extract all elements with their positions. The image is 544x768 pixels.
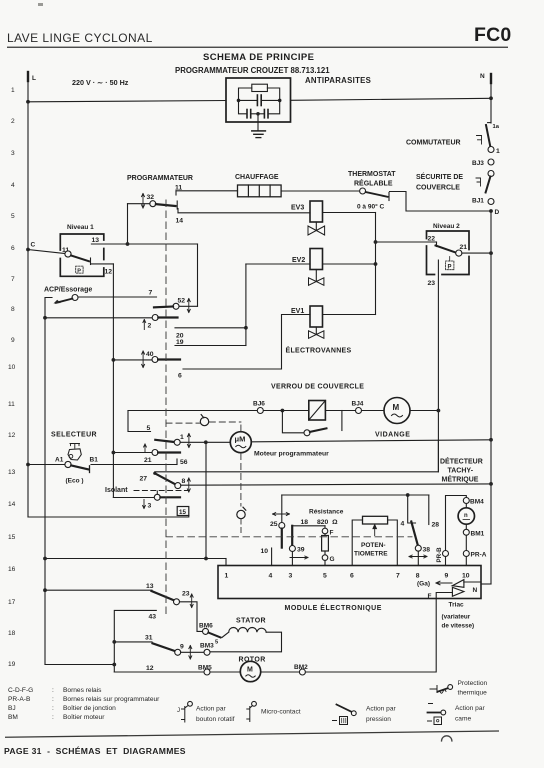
- svg-text:3: 3: [148, 503, 152, 510]
- ACP switch circle: [72, 295, 78, 301]
- wire 21 to N: [462, 252, 491, 254]
- wire 7: [78, 296, 157, 298]
- svg-text:19: 19: [8, 661, 16, 668]
- microcontact cam circle 2: [237, 510, 245, 518]
- svg-text:9: 9: [180, 644, 184, 651]
- pM drop vertical: [205, 442, 207, 558]
- svg-text:SÉCURITE DE: SÉCURITE DE: [416, 172, 463, 181]
- wire uM to N: [251, 440, 491, 442]
- svg-text:12: 12: [105, 269, 113, 276]
- connector BJ3: [488, 159, 494, 165]
- wire antiparasites to N rail: [291, 98, 492, 100]
- punch hole mark: [442, 736, 452, 741]
- heater resistor chauffage: [238, 185, 282, 197]
- contact 21 circle: [152, 450, 158, 456]
- cam arrow 39: [290, 556, 308, 559]
- cam arrow 8: [187, 478, 190, 492]
- node 4/28 wire: [406, 493, 410, 497]
- wire B1 to 56: [91, 464, 177, 466]
- wire 11: [175, 191, 177, 195]
- contact 3 wire: [113, 497, 154, 499]
- node rail motor: [112, 663, 116, 667]
- svg-text:15: 15: [8, 534, 16, 541]
- potentiometer left leg: [352, 520, 362, 566]
- svg-text:B1: B1: [90, 457, 99, 464]
- wire 8 to N: [181, 484, 491, 485]
- EV2 valve symbol: [315, 270, 317, 282]
- wire 12 motor: [114, 671, 204, 673]
- svg-text:52: 52: [178, 298, 186, 305]
- wire EV2 right: [323, 263, 376, 265]
- wire 13 motor row: [45, 589, 152, 591]
- wire 22: [376, 241, 437, 243]
- svg-text:1: 1: [11, 87, 15, 94]
- small scanner tick top left: [38, 3, 43, 6]
- svg-text::: :: [52, 705, 54, 712]
- resistor 820 F circle: [324, 526, 326, 528]
- verrou microswitch blade: [310, 428, 327, 432]
- svg-text:13: 13: [92, 237, 100, 244]
- node rail/wire13b: [43, 588, 47, 592]
- wire 18: [292, 525, 325, 527]
- svg-text:STATOR: STATOR: [236, 618, 266, 625]
- verrou relay coil: [309, 401, 326, 421]
- contact 25 circle: [279, 523, 285, 529]
- svg-text:1: 1: [180, 434, 184, 441]
- contact 38 blade: [411, 522, 418, 546]
- wire 1 to uM: [180, 441, 230, 443]
- BM4 circle: [463, 498, 469, 504]
- svg-text:23: 23: [182, 591, 190, 598]
- switch 1a blade: [488, 122, 491, 124]
- node EV bus EV2: [374, 262, 378, 266]
- wire 14: [177, 209, 179, 213]
- pin4 stub: [271, 548, 273, 566]
- node 31 junction: [112, 640, 116, 644]
- pin9 stub: [445, 557, 447, 566]
- svg-text:pression: pression: [366, 716, 391, 723]
- wire 13: [91, 243, 197, 245]
- cam arrow 32: [142, 194, 145, 209]
- svg-text:28: 28: [432, 522, 440, 529]
- svg-text:6: 6: [350, 573, 354, 580]
- svg-text:7: 7: [149, 290, 153, 297]
- svg-text:G: G: [330, 556, 335, 563]
- wire BJ4 to motor: [362, 410, 385, 412]
- svg-text:D: D: [495, 209, 500, 216]
- svg-text:43: 43: [149, 614, 157, 621]
- svg-text:27: 27: [140, 476, 148, 483]
- svg-text:11: 11: [8, 401, 15, 408]
- svg-text:M: M: [247, 667, 253, 674]
- svg-text:L: L: [32, 75, 36, 82]
- svg-text:PROGRAMMATEUR: PROGRAMMATEUR: [127, 175, 193, 182]
- svg-text:13: 13: [8, 469, 16, 476]
- triac to F: [436, 593, 452, 599]
- contact 21 wire: [113, 452, 152, 454]
- ground: [257, 114, 259, 131]
- dashed link module: [240, 425, 242, 431]
- contact 27 pivot: [153, 472, 156, 475]
- svg-text:F: F: [428, 593, 432, 600]
- svg-text:A1: A1: [55, 457, 64, 464]
- svg-text:MODULE ÉLECTRONIQUE: MODULE ÉLECTRONIQUE: [285, 603, 382, 612]
- couvercle switch symbol F: [476, 178, 481, 186]
- BM6 tap blade: [208, 633, 220, 638]
- contact circle 1: [488, 147, 494, 153]
- svg-text:1: 1: [225, 573, 229, 580]
- L rail: [27, 72, 29, 517]
- wire 19: [175, 345, 246, 347]
- svg-text:BM5: BM5: [198, 665, 212, 672]
- svg-text:came: came: [455, 716, 471, 723]
- verrou microswitch circle: [304, 430, 310, 436]
- svg-text:BM: BM: [8, 714, 18, 721]
- svg-text:J: J: [177, 708, 180, 714]
- svg-text:0 à 90° C: 0 à 90° C: [357, 203, 384, 211]
- N rail middle segment: [490, 211, 492, 584]
- svg-text:PR-A-B: PR-A-B: [8, 696, 31, 703]
- svg-text:Boîtier de jonction: Boîtier de jonction: [63, 705, 116, 712]
- svg-text:10: 10: [462, 573, 470, 580]
- svg-text:4: 4: [269, 573, 273, 580]
- wire EV1 right: [323, 314, 376, 316]
- svg-text:3: 3: [11, 150, 15, 157]
- stator winding: [222, 628, 266, 638]
- EV2 riser: [245, 264, 247, 346]
- node pM-drop/pin1wire: [204, 557, 208, 561]
- contact 39 blade: [291, 526, 293, 546]
- node C: [26, 248, 30, 252]
- wire coil to BJ4: [325, 410, 355, 412]
- svg-text:TACHY-: TACHY-: [448, 468, 474, 475]
- svg-text:BJ3: BJ3: [472, 160, 484, 167]
- pin8 stub: [417, 551, 419, 565]
- pin1 stub: [225, 559, 227, 566]
- resistor antiparasites top: [239, 88, 252, 100]
- selecteur blade: [71, 465, 88, 469]
- wire main phase to antiparasites: [28, 101, 226, 102]
- svg-text:1a: 1a: [493, 124, 500, 130]
- svg-text:2: 2: [11, 118, 15, 125]
- svg-text:21: 21: [144, 457, 152, 464]
- svg-text:Boîtier moteur: Boîtier moteur: [63, 714, 105, 721]
- svg-text:VIDANGE: VIDANGE: [375, 432, 410, 439]
- contact 32: [150, 201, 156, 207]
- node filter left: [237, 99, 241, 103]
- contact 52: [173, 303, 179, 309]
- svg-text:Triac: Triac: [449, 602, 465, 609]
- capacitor C1 series: [239, 99, 257, 101]
- niveau1 blade: [71, 256, 89, 262]
- programme motor uM: [230, 432, 251, 453]
- cam arrow 9: [189, 646, 192, 660]
- svg-text:ROTOR: ROTOR: [239, 657, 266, 664]
- node rail/pin1wire: [43, 557, 47, 561]
- niveau2 contact circle 21: [456, 250, 462, 256]
- wire rotor to BM2: [261, 671, 300, 673]
- svg-text:C: C: [31, 242, 36, 249]
- cam arrow 1: [187, 434, 190, 448]
- wire 5 stub: [128, 411, 151, 432]
- triac to N edge: [464, 581, 481, 583]
- contact 1 blade: [155, 440, 174, 442]
- connector BJ4: [356, 408, 362, 414]
- svg-text:Isolant: Isolant: [105, 487, 128, 494]
- svg-text:PR-B: PR-B: [436, 547, 443, 563]
- contact 40: [152, 357, 158, 363]
- svg-text:SCHEMA DE PRINCIPE: SCHEMA DE PRINCIPE: [203, 52, 314, 63]
- dashed cam line 1: [165, 200, 167, 617]
- svg-text:Niveau 2: Niveau 2: [433, 223, 460, 230]
- module electronique box: [218, 566, 481, 599]
- svg-text:BJ: BJ: [8, 705, 16, 712]
- node pM branch: [204, 440, 208, 444]
- wire to pin1: [45, 558, 226, 560]
- node D: [489, 209, 493, 213]
- svg-text:Moteur programmateur: Moteur programmateur: [254, 451, 329, 458]
- svg-text:BM2: BM2: [294, 664, 308, 671]
- thermostat blade: [366, 192, 388, 197]
- svg-text:8: 8: [11, 306, 15, 313]
- svg-text:μM: μM: [235, 435, 246, 444]
- svg-text::: :: [52, 687, 54, 694]
- capacitor C2 bottom left: [239, 100, 247, 113]
- node N junction: [489, 96, 493, 100]
- node 13/32: [126, 242, 130, 246]
- svg-text:FC0: FC0: [474, 24, 511, 46]
- svg-text:19: 19: [176, 339, 184, 346]
- PR-B circle: [443, 551, 449, 557]
- pin5 stub: [324, 560, 326, 565]
- node filter right: [278, 99, 282, 103]
- wire 23 drop: [437, 260, 439, 472]
- svg-text:8: 8: [182, 478, 186, 485]
- contact 31/9 blade: [153, 643, 175, 651]
- antiparasites filter box: [226, 78, 291, 122]
- svg-text:SELECTEUR: SELECTEUR: [51, 432, 97, 439]
- svg-text:de vitesse): de vitesse): [442, 623, 475, 630]
- microcontact cam circle 1: [200, 417, 208, 425]
- svg-text:Niveau 1: Niveau 1: [67, 224, 94, 231]
- footer rule: [5, 730, 499, 738]
- N rail: [490, 74, 492, 123]
- svg-text:BM1: BM1: [471, 531, 485, 538]
- svg-text:BJ6: BJ6: [253, 401, 265, 408]
- PR-A circle: [465, 535, 467, 550]
- svg-text:VERROU DE COUVERCLE: VERROU DE COUVERCLE: [271, 384, 364, 391]
- svg-text:(Ga): (Ga): [417, 581, 430, 588]
- header rule: [7, 47, 508, 48]
- niveau1 12 terminal: [92, 263, 114, 265]
- legend text: [8, 687, 160, 721]
- legend icon came: [429, 703, 433, 705]
- module pin numbers: [225, 573, 470, 580]
- svg-text:Bornes relais: Bornes relais: [63, 687, 102, 694]
- contact 3 circle: [154, 494, 160, 500]
- isolant dashes: [134, 490, 188, 492]
- wire rail to motor block: [45, 664, 114, 666]
- cam arrow 38: [409, 555, 427, 558]
- wire 27 to N branch: [155, 471, 439, 473]
- wire 52 to 13drop: [179, 305, 197, 307]
- cam arrow 21: [144, 444, 147, 453]
- contact 21 blade: [158, 451, 180, 453]
- svg-text:M: M: [393, 403, 400, 412]
- svg-text:25: 25: [270, 521, 278, 528]
- svg-text:18: 18: [8, 630, 16, 637]
- svg-text:5: 5: [11, 213, 15, 220]
- svg-text:BJ1: BJ1: [472, 198, 484, 205]
- node filter center: [251, 113, 265, 115]
- svg-text:ÉLECTROVANNES: ÉLECTROVANNES: [286, 346, 352, 355]
- svg-text:7: 7: [396, 573, 400, 580]
- svg-text:820 Ω: 820 Ω: [317, 519, 338, 526]
- triac: [452, 580, 464, 597]
- svg-text:C-D-F-G: C-D-F-G: [8, 687, 33, 694]
- wire C to niveau1: [28, 250, 65, 254]
- contact 23 circle: [174, 599, 180, 605]
- EV3 valve symbol: [315, 222, 317, 231]
- connector BM5: [204, 669, 210, 675]
- svg-text:Résistance: Résistance: [309, 509, 344, 516]
- wire 32 to niveau1-13: [128, 203, 150, 205]
- vidange motor M: [384, 398, 410, 424]
- svg-text:Action par: Action par: [455, 705, 485, 712]
- svg-text:12: 12: [146, 665, 154, 672]
- svg-text:(Eco ): (Eco ): [66, 478, 84, 485]
- connector BM3: [204, 649, 210, 655]
- relay bus vertical 12: [112, 264, 114, 498]
- terminal box 15: [177, 507, 189, 516]
- BM1 circle: [465, 524, 467, 529]
- wire 13 drop: [197, 244, 199, 306]
- pin10 stub: [465, 557, 467, 566]
- niveau1 contact circle: [65, 251, 71, 257]
- svg-text:6: 6: [11, 245, 15, 252]
- wire 40 left: [113, 359, 152, 361]
- cam arrow 23: [190, 594, 193, 608]
- svg-text::: :: [52, 696, 54, 703]
- wire BM5 to rotor: [210, 671, 241, 673]
- svg-text:220 V · ∼ · 50 Hz: 220 V · ∼ · 50 Hz: [72, 78, 129, 87]
- svg-text:12: 12: [8, 432, 16, 439]
- svg-text:7: 7: [11, 276, 15, 283]
- node EV bus 22: [374, 240, 378, 244]
- cam arrow 52: [187, 299, 190, 313]
- svg-text:1: 1: [496, 148, 500, 155]
- wire A1: [28, 464, 65, 466]
- svg-text:18: 18: [301, 519, 309, 526]
- svg-text:PROGRAMMATEUR CROUZET 88.713.1: PROGRAMMATEUR CROUZET 88.713.121: [175, 66, 330, 75]
- svg-text:4: 4: [401, 521, 405, 528]
- niveau1 P symbol: [76, 266, 83, 273]
- svg-text:BM3: BM3: [200, 643, 214, 650]
- contact 25 blade: [281, 529, 283, 548]
- wire EV2 left: [246, 263, 310, 265]
- terminal 4: [408, 495, 416, 523]
- svg-text:14: 14: [176, 218, 184, 225]
- dashed link pM: [166, 422, 200, 424]
- svg-text:CHAUFFAGE: CHAUFFAGE: [235, 174, 279, 181]
- svg-text:bouton rotatif: bouton rotatif: [196, 716, 235, 723]
- ACP switch blade arrow: [56, 299, 72, 303]
- contact 1 circle: [174, 439, 180, 445]
- contact 3 blade: [160, 496, 180, 498]
- svg-text:11: 11: [175, 184, 182, 191]
- connector BM2: [299, 669, 305, 675]
- svg-text:3: 3: [289, 573, 293, 580]
- svg-text:TIOMETRE: TIOMETRE: [354, 551, 388, 558]
- svg-text:MÉTRIQUE: MÉTRIQUE: [442, 475, 479, 484]
- wire 20: [175, 327, 246, 329]
- PR-B riser: [446, 496, 467, 551]
- protection thermique icon: [430, 686, 437, 693]
- verrou microswitch branch: [282, 411, 304, 433]
- cam arrow 25: [273, 513, 290, 516]
- dashed cam bus module: [240, 519, 242, 536]
- potentiometer body: [363, 516, 388, 524]
- capacitor C3 bottom right: [269, 100, 280, 113]
- wire EV3 right: [323, 212, 376, 214]
- contact 9 circle: [175, 649, 181, 655]
- svg-text:9: 9: [445, 573, 449, 580]
- wire thermostat to D: [390, 192, 492, 212]
- contact 2: [152, 315, 158, 321]
- svg-text::: :: [52, 714, 54, 721]
- svg-text:4: 4: [11, 182, 15, 189]
- verrou microswitch fixed: [341, 411, 343, 431]
- wire 43: [114, 610, 156, 672]
- cam arrow 40: [142, 351, 145, 368]
- couvercle switch top circle: [488, 171, 494, 177]
- resistor 820 G circle: [324, 551, 326, 555]
- node vidange/23: [437, 409, 441, 413]
- contact 27 blade: [155, 473, 176, 484]
- svg-text:PR-A: PR-A: [471, 552, 487, 559]
- svg-text:31: 31: [145, 635, 153, 642]
- tachy generator n: [465, 504, 467, 508]
- potentiometer wiper: [373, 525, 377, 536]
- svg-text:17: 17: [8, 599, 16, 606]
- svg-text:POTEN-: POTEN-: [361, 542, 386, 549]
- node ACP junction: [43, 316, 47, 320]
- cam arrow 2: [143, 320, 146, 330]
- svg-text:10: 10: [8, 364, 16, 371]
- node A1 junction: [26, 463, 30, 467]
- svg-text:(variateur: (variateur: [442, 614, 471, 621]
- svg-text:40: 40: [146, 351, 154, 358]
- node 21/N: [489, 251, 493, 255]
- svg-text:13: 13: [146, 583, 154, 590]
- svg-text:BJ4: BJ4: [352, 401, 364, 408]
- connector BJ6: [257, 408, 263, 414]
- svg-text:Bornes relais sur programmateu: Bornes relais sur programmateur: [63, 696, 160, 703]
- node 40 junction: [112, 358, 116, 362]
- contact 38 circle: [415, 545, 421, 551]
- node 20/EV2riser: [244, 326, 248, 330]
- terminal 28: [428, 495, 430, 525]
- margin row numbers 1..19: [8, 87, 16, 668]
- svg-text:EV3: EV3: [291, 205, 304, 212]
- svg-text:Action par: Action par: [196, 706, 226, 713]
- niveau2 pressure switch box: [427, 231, 470, 275]
- svg-text:RÉGLABLE: RÉGLABLE: [354, 179, 393, 188]
- svg-text:THERMOSTAT: THERMOSTAT: [348, 171, 396, 178]
- rotor motor M: [240, 661, 260, 681]
- svg-text:P: P: [448, 265, 452, 271]
- svg-text:39: 39: [297, 547, 305, 554]
